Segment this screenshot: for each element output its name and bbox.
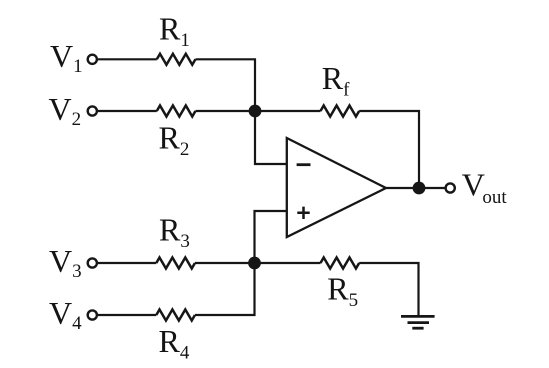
svg-text:V1: V1 — [50, 38, 83, 77]
svg-text:V2: V2 — [49, 91, 82, 130]
junction node A — [249, 105, 262, 118]
wire node A to Rf — [255, 110, 321, 112]
wire V3 to R3 — [98, 262, 157, 264]
wire R5 to ground — [359, 263, 418, 316]
wire node A to inverting input — [255, 111, 287, 164]
svg-text:Vout: Vout — [462, 167, 508, 209]
wire V2 to R2 — [98, 110, 157, 112]
svg-text:R2: R2 — [159, 120, 190, 161]
svg-text:R4: R4 — [159, 323, 190, 364]
svg-text:R1: R1 — [159, 10, 190, 51]
resistor R2 — [157, 106, 196, 117]
op-amp U1 — [287, 138, 386, 237]
wire non-inverting input to node B — [255, 211, 287, 263]
wire R4 up to node B — [195, 263, 255, 315]
wire V1 to R1 — [98, 58, 157, 60]
wire op-amp output to Vout terminal — [386, 187, 445, 189]
resistor R1 — [157, 54, 196, 65]
terminal Vout — [446, 183, 455, 192]
wire R1 to node A (corner at x=255) — [196, 59, 256, 111]
terminal V4 — [88, 310, 97, 319]
svg-text:R3: R3 — [159, 212, 190, 253]
resistor Rf — [321, 106, 360, 117]
op-amp minus sign — [297, 163, 311, 166]
resistor R4 — [156, 310, 195, 321]
terminal V1 — [88, 55, 97, 64]
junction output node — [413, 182, 426, 195]
wire Rf to output node — [359, 111, 419, 188]
svg-text:R5: R5 — [327, 271, 358, 312]
svg-text:V3: V3 — [49, 243, 82, 282]
resistor R3 — [156, 258, 195, 269]
svg-text:Rf: Rf — [322, 60, 350, 101]
wire R3 to node B — [195, 262, 255, 264]
wire R2 to node A — [196, 110, 256, 112]
terminal V3 — [88, 258, 97, 267]
junction node B — [248, 257, 261, 270]
terminal V2 — [88, 106, 97, 115]
svg-text:V4: V4 — [49, 295, 82, 334]
wire V4 to R4 — [98, 314, 157, 316]
wire node B to R5 — [255, 262, 321, 264]
resistor R5 — [321, 258, 360, 269]
op-amp plus sign — [297, 207, 309, 219]
ground — [401, 316, 435, 328]
